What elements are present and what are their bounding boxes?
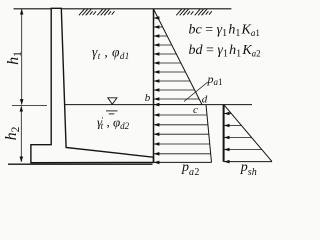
h1/h2 boundary extension line xyxy=(12,104,47,106)
ground hatch group 2 xyxy=(97,9,114,16)
pressure diagram wall line xyxy=(153,9,155,162)
water table line xyxy=(65,104,252,106)
svg-text:c: c xyxy=(193,104,198,116)
ground hatch group 3 xyxy=(176,9,193,16)
svg-text:bd = γ1h1Ka2: bd = γ1h1Ka2 xyxy=(189,43,261,60)
svg-text:γ′t , φd2: γ′t , φd2 xyxy=(97,115,130,132)
svg-text:psh: psh xyxy=(240,160,257,178)
retaining wall outline with footing xyxy=(31,8,154,162)
ground line left of wall xyxy=(14,8,52,10)
pa2 bottom edge with arrow xyxy=(154,161,212,163)
pa1 arrows xyxy=(154,18,202,105)
pa2 arrows xyxy=(154,115,211,154)
psh wall line xyxy=(223,104,225,161)
svg-text:h2: h2 xyxy=(3,126,22,140)
svg-text:γt , φd1: γt , φd1 xyxy=(92,44,130,61)
svg-text:bc = γ1h1Ka1: bc = γ1h1Ka1 xyxy=(189,23,260,40)
base ground line xyxy=(8,163,153,165)
pa2 trapezoid right edge xyxy=(206,105,212,163)
pa1 triangle hypotenuse xyxy=(154,9,203,105)
psh arrows xyxy=(224,114,262,150)
svg-text:b: b xyxy=(145,92,151,104)
ground hatch group 4 xyxy=(195,9,212,16)
pa1 leader line xyxy=(184,82,208,102)
psh hypotenuse xyxy=(224,104,272,161)
h2 dimension line xyxy=(20,106,22,162)
ground hatch group 1 xyxy=(79,9,96,16)
psh bottom edge with arrow xyxy=(224,161,272,163)
water table symbol xyxy=(108,98,117,105)
ground line right of wall xyxy=(61,8,231,10)
svg-text:d: d xyxy=(202,94,208,106)
svg-text:pa1: pa1 xyxy=(207,72,223,87)
svg-text:h1: h1 xyxy=(5,51,24,65)
h1 dimension line xyxy=(21,9,23,104)
